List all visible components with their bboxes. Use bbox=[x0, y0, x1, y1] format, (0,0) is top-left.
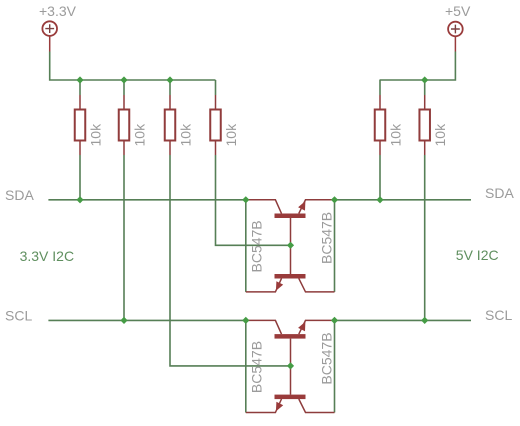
svg-text:SCL: SCL bbox=[5, 308, 32, 324]
wire SCL pair left vertical bbox=[245, 320, 247, 412]
svg-text:10k: 10k bbox=[177, 123, 193, 147]
transistor Q4 BC547B (SCL bottom) bbox=[246, 366, 335, 413]
wire +3.3V rail bbox=[50, 52, 216, 81]
junction rail R6 bbox=[421, 76, 428, 83]
transistor Q3 BC547B (SCL top) bbox=[246, 320, 335, 366]
resistor R1 10k bbox=[75, 80, 86, 200]
resistor R3 10k bbox=[165, 80, 176, 155]
svg-text:10k: 10k bbox=[223, 123, 239, 147]
svg-text:SDA: SDA bbox=[5, 187, 34, 203]
junction SDA R5 bbox=[376, 196, 383, 203]
wire SDA pair right vertical bbox=[334, 200, 336, 292]
resistor R5 10k bbox=[375, 80, 386, 200]
svg-text:10k: 10k bbox=[131, 123, 147, 147]
wire R4 to SDA pair base bbox=[216, 155, 291, 245]
wire SDA 3.3V side bbox=[48, 199, 245, 201]
wire SDA 5V side bbox=[335, 199, 472, 201]
junction SCL pair left bbox=[242, 317, 249, 324]
junction SCL pair right bbox=[331, 317, 338, 324]
svg-text:10k: 10k bbox=[87, 123, 103, 147]
svg-text:BC547B: BC547B bbox=[319, 332, 335, 384]
junction SCL R6 bbox=[421, 317, 428, 324]
transistor Q2 BC547B (SDA bottom) bbox=[246, 245, 335, 292]
resistor R6 10k bbox=[419, 80, 430, 320]
wire R3 to SCL pair base bbox=[170, 155, 291, 366]
svg-text:3.3V I2C: 3.3V I2C bbox=[20, 248, 74, 264]
power +5V supply symbol P2 bbox=[448, 22, 463, 52]
junction SDA pair right bbox=[331, 196, 338, 203]
wire SDA pair left vertical bbox=[245, 200, 247, 292]
transistor Q1 BC547B (SDA top) bbox=[246, 200, 335, 246]
junction SDA R1 bbox=[76, 196, 83, 203]
svg-text:SDA: SDA bbox=[485, 185, 514, 201]
junction SDA pair left bbox=[242, 196, 249, 203]
junction SCL R2 bbox=[120, 317, 127, 324]
wire SCL 5V side bbox=[335, 319, 472, 321]
junction rail R3 bbox=[166, 76, 173, 83]
svg-text:SCL: SCL bbox=[485, 307, 512, 323]
power +3.3V supply symbol P1 bbox=[42, 21, 57, 51]
svg-text:5V I2C: 5V I2C bbox=[456, 247, 499, 263]
svg-text:+3.3V: +3.3V bbox=[39, 3, 77, 19]
wire SCL pair right vertical bbox=[334, 320, 336, 412]
junction SCL pair base bbox=[287, 362, 294, 369]
svg-text:10k: 10k bbox=[387, 123, 403, 147]
resistor R4 10k bbox=[210, 80, 221, 155]
svg-text:BC547B: BC547B bbox=[319, 212, 335, 264]
wire SCL 3.3V side bbox=[48, 319, 245, 321]
wire +5V rail bbox=[380, 52, 456, 81]
junction rail R1 bbox=[76, 76, 83, 83]
svg-text:BC547B: BC547B bbox=[249, 341, 265, 393]
junction SDA pair base bbox=[287, 242, 294, 249]
resistor R2 10k bbox=[119, 80, 130, 320]
svg-text:BC547B: BC547B bbox=[249, 220, 265, 272]
svg-text:+5V: +5V bbox=[445, 3, 471, 19]
junction rail R2 bbox=[120, 76, 127, 83]
svg-text:10k: 10k bbox=[432, 123, 448, 147]
